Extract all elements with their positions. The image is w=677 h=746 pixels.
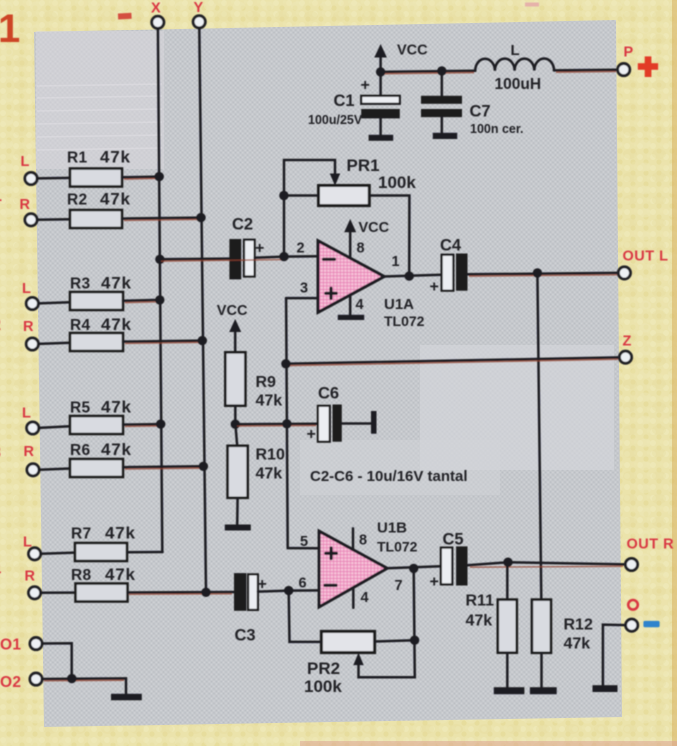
resistor R6 [70,459,123,477]
svg-text:47k: 47k [256,466,283,483]
resistor R11 [506,562,509,599]
PR2 wiper arrowhead [353,653,363,665]
svg-text:100uH: 100uH [495,76,542,93]
svg-text:C3: C3 [235,627,256,645]
svg-text:6: 6 [299,576,307,592]
resistor R12 [532,600,551,653]
wire input2R to R4 [39,343,71,344]
svg-text:+: + [361,77,370,94]
terminal O1 [30,638,42,650]
node Y terminal [193,16,205,28]
ground R12 [530,687,557,694]
input 3 L terminal [27,422,39,434]
svg-text:47k: 47k [256,393,283,410]
svg-text:2: 2 [0,317,1,334]
svg-text:P: P [624,45,634,61]
svg-text:8: 8 [357,241,365,257]
svg-text:47k: 47k [101,398,132,417]
resistor R9 [225,352,245,405]
resistor R1 [70,169,122,187]
svg-text:47k: 47k [100,148,131,167]
wire R4 to Y bus [123,341,202,342]
svg-text:+: + [430,574,439,591]
junction R9-R10 [231,420,240,429]
wire PR2 left lead [289,591,322,642]
wire R3 to X bus [123,299,160,302]
svg-text:8: 8 [359,533,367,549]
wire Z node [286,357,620,363]
svg-text:Z: Z [623,334,632,350]
VCC arrow top [379,56,382,72]
wire R5 to X bus [123,423,161,426]
ground O2 [111,694,142,701]
OUT R terminal [625,558,637,570]
svg-text:3: 3 [300,281,308,297]
OUT L terminal [618,267,630,279]
junction C2-pin2-PR1 [279,252,288,261]
wire long vertical OUTL to R12 [537,273,541,600]
ground R10 [225,525,251,531]
svg-text:R10: R10 [256,447,285,464]
svg-text:+: + [255,240,264,257]
pin 1 output wire U1A [384,275,442,277]
junction R5-X [156,419,165,428]
capacitor C1 [379,72,382,96]
junction bias-Z [281,359,290,368]
svg-text:100k: 100k [304,677,342,696]
input 1 L terminal [25,172,37,184]
capacitor C3 [234,573,246,611]
terminal O2 [30,673,42,685]
wire input4R to R8 [41,591,76,594]
junction R8-Y-C3 [201,588,210,597]
pin 4 ground U1A [349,295,352,315]
svg-text:47k: 47k [466,613,493,630]
wire R1 to X bus [122,175,159,178]
svg-text:C6: C6 [318,385,339,403]
svg-text:47k: 47k [100,190,131,209]
pin 4 tick U1B [352,588,355,608]
junction rail-C1 [376,67,385,76]
junction OUT L branch [533,268,542,277]
wire O1 to junction [42,643,71,678]
svg-text:47k: 47k [101,274,132,293]
wire O to ground [603,625,626,686]
wire PR2 right lead and wiper return [375,640,415,641]
ground C6 (vertical bar) [371,411,377,434]
wire C3 to pin6 junction [258,591,289,592]
wire C6 to ground bar [342,422,371,425]
ground C7 [433,133,457,139]
svg-text:R11: R11 [466,593,495,610]
trimmer PR2 [321,631,374,652]
svg-text:X: X [151,1,161,17]
terminal O [626,619,638,631]
VCC arrow R9 [234,331,237,353]
svg-text:R: R [24,444,35,460]
wire R11 to ground [506,653,509,688]
svg-text:R: R [23,319,34,335]
svg-text:47k: 47k [105,565,136,584]
svg-text:5: 5 [300,534,308,550]
wire R9 to junction [234,406,237,425]
svg-text:VCC: VCC [397,43,428,59]
svg-text:TL072: TL072 [384,313,425,329]
wire X bus vertical [158,29,162,552]
wire input3L to R5 [39,426,70,428]
ground C1 [369,135,394,141]
wire pin5 from bias vertical [288,547,319,550]
svg-text:R7: R7 [71,526,91,543]
svg-text:R9: R9 [256,374,277,391]
capacitor C4 [442,255,454,291]
svg-text:R1: R1 [67,150,87,167]
wire O2 to ground [42,678,126,693]
resistor R7 [75,543,127,561]
svg-text:L: L [22,281,31,297]
op-amp U1A [318,241,384,312]
svg-text:O2: O2 [0,674,21,691]
wire PR1 left lead [284,194,319,197]
junction pin7-C5-PR2 [409,564,418,573]
pin 8 VCC arrow U1A [349,231,352,259]
junction PR1 left-wiper arm [279,191,288,200]
svg-text:4: 4 [0,563,1,580]
pin 3 wire U1A [286,297,318,300]
svg-text:L: L [22,406,31,422]
resistor R2 [70,210,122,228]
wire R7 to X bus end [127,551,163,554]
svg-text:C5: C5 [443,531,464,549]
svg-text:2: 2 [297,241,305,257]
node X terminal [152,16,164,28]
svg-text:O1: O1 [0,637,21,654]
junction R6-Y [199,462,208,471]
wire C4 to OUT L [468,273,619,274]
svg-text:1: 1 [392,254,400,270]
svg-text:R: R [25,569,36,585]
svg-text:PR2: PR2 [307,659,340,678]
svg-text:C4: C4 [440,237,462,255]
plus mark at P [638,63,658,70]
junction R2-Y [196,213,205,222]
input 2 L terminal [26,297,38,309]
svg-text:Y: Y [194,0,204,16]
svg-text:100n cer.: 100n cer. [470,122,524,136]
wire X bus to C2 [160,257,230,260]
svg-text:R5: R5 [70,400,90,417]
inductor L [475,58,554,70]
svg-text:L: L [21,154,30,170]
O label (red ring) [628,600,638,610]
junction R3-X [155,295,164,304]
PR1 wiper arm wire [284,160,335,257]
junction bias-C6 [282,419,291,428]
junction R1-X [155,172,164,181]
input 1 R terminal [25,214,37,226]
svg-text:C7: C7 [470,103,491,121]
svg-text:U1B: U1B [377,520,407,537]
resistor R5 [70,416,123,434]
svg-text:47k: 47k [105,524,136,543]
pin 7 output wire U1B [387,566,441,568]
svg-text:100k: 100k [378,173,416,192]
svg-text:4: 4 [361,590,369,606]
junction PR2 right-wiper [410,636,419,645]
svg-text:OUT R: OUT R [627,537,675,553]
node Z terminal [619,351,631,363]
wire R10 top [235,424,237,446]
svg-text:47k: 47k [101,440,132,459]
input 4 L terminal [28,548,40,560]
svg-text:R8: R8 [71,567,91,584]
wire VCC rail [381,71,476,72]
svg-text:OUT L: OUT L [623,249,669,265]
svg-text:R4: R4 [70,317,90,334]
junction O1-O2 [67,674,76,683]
svg-text:+: + [307,426,316,443]
svg-text:C2: C2 [232,216,253,234]
capacitor C5 [441,548,452,585]
wire R6 to Y bus [123,465,203,468]
wire C1 to ground [379,118,382,134]
wire input3R to R6 [39,469,70,470]
wire C2 to pin2 junction [255,257,284,258]
terminal P [618,64,630,76]
wire bias row to C6 [235,422,318,425]
svg-text:R2: R2 [67,192,87,209]
junction R4-Y [198,336,207,345]
ground O [593,685,618,692]
svg-text:7: 7 [395,578,403,594]
wire R10 to ground [236,498,239,525]
junction pin1-PR1-C4 [405,271,414,280]
svg-text:TL072: TL072 [377,539,418,555]
wire input1L to R1 [37,177,70,180]
svg-text:PR1: PR1 [347,156,380,175]
svg-text:VCC: VCC [217,303,248,319]
input 3 R terminal [27,464,39,476]
capacitor C7 [441,71,444,96]
PR1 wiper arrowhead [330,174,340,186]
input 2 R terminal [26,338,38,350]
wire pin2 to op-amp [284,255,318,258]
svg-text:VCC: VCC [359,220,390,236]
minus mark at O (blue) [643,621,659,627]
capacitor C6 [318,406,330,442]
wire C7 to ground [441,117,444,133]
svg-text:R: R [20,197,31,213]
wire R12 to ground [540,653,543,687]
red scan artifact dash top [118,13,132,20]
capacitor C2 [229,239,241,279]
resistor R3 [70,292,123,310]
wire input1R to R2 [37,218,70,221]
svg-text:L: L [511,42,520,59]
svg-text:1: 1 [0,188,2,205]
input 4 R terminal [28,587,40,599]
svg-text:C2-C6 - 10u/16V tantal: C2-C6 - 10u/16V tantal [310,468,468,485]
pin 8 tick U1B [352,528,355,549]
wire input2L to R3 [39,302,71,303]
svg-text:47k: 47k [564,636,591,653]
svg-text:C1: C1 [334,92,355,110]
svg-text:R12: R12 [564,617,593,634]
junction rail-C7 [437,66,446,75]
wire R8 to C3 [128,591,235,594]
svg-text:+: + [430,279,439,296]
wire bias vertical pin3 to pin5 [286,298,288,548]
wire Y bus vertical [199,28,206,592]
op-amp U1B [319,531,387,607]
svg-text:1: 1 [0,7,20,51]
svg-text:R6: R6 [70,442,90,459]
resistor R4 [70,333,123,351]
ground R11 [494,687,525,694]
svg-text:R3: R3 [70,276,90,293]
svg-text:U1A: U1A [384,296,414,313]
junction OUT R-R11 [503,558,512,567]
trimmer PR1 [319,186,370,206]
wire pin6 to op-amp [289,589,319,592]
wire L to P [554,68,618,71]
svg-text:47k: 47k [101,315,132,334]
wire C5 to OUT R [468,562,626,565]
resistor R10 [228,446,248,498]
resistor R8 [76,584,128,602]
svg-text:4: 4 [356,297,364,313]
svg-text:3: 3 [0,445,1,462]
svg-text:100u/25V: 100u/25V [308,113,363,127]
wire input4L to R7 [41,553,75,554]
junction C3-pin6-PR2 [284,586,293,595]
junction X-C2 [155,255,164,264]
wire PR1 right lead to output node [369,196,409,277]
wire R2 to Y bus [122,218,201,219]
